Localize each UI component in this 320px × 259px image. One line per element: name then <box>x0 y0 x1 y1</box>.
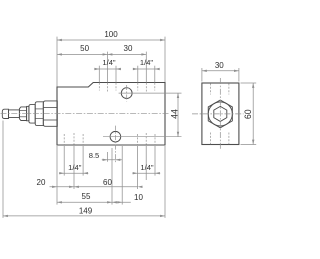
cap nut against body <box>43 101 57 126</box>
lower circle vertical centre line <box>114 126 116 164</box>
extension for 8.5 left <box>107 152 109 162</box>
dimension quarter top-left line <box>94 68 121 70</box>
svg-text:1/4": 1/4" <box>140 58 154 67</box>
svg-text:55: 55 <box>82 192 91 201</box>
extension bottom port1 edges <box>64 146 83 176</box>
svg-text:60: 60 <box>103 178 112 187</box>
svg-text:10: 10 <box>134 193 143 202</box>
washer <box>27 106 29 120</box>
extension at x112 <box>111 148 113 205</box>
extension line body right top <box>164 37 166 82</box>
extension bottom port2 right edge <box>154 146 156 176</box>
side view hidden port lines top <box>210 83 229 94</box>
extension body right bottom <box>164 146 166 218</box>
svg-text:8.5: 8.5 <box>89 151 100 160</box>
bottom port 2 hidden lines <box>138 133 155 145</box>
extension screw tip <box>2 121 4 218</box>
upper circle vertical centre line <box>126 85 128 101</box>
dimension 20-60 line <box>50 186 143 188</box>
extension body left bottom <box>56 146 58 205</box>
adjustment screw shaft <box>9 110 20 118</box>
svg-text:30: 30 <box>124 44 133 53</box>
side view hidden port lines bottom <box>210 133 229 145</box>
dimension 44 line <box>177 93 179 137</box>
extension line body left top <box>56 37 58 87</box>
svg-text:44: 44 <box>169 109 179 119</box>
extension at x122 <box>121 146 123 205</box>
extension bottom port2 left edge <box>137 146 139 189</box>
side extension left <box>201 68 203 82</box>
valve body front view outline <box>57 83 165 146</box>
svg-text:20: 20 <box>37 178 46 187</box>
svg-text:1/4": 1/4" <box>102 58 116 67</box>
lock nut hex A <box>19 107 26 121</box>
side view horizontal centre line <box>192 113 244 115</box>
svg-text:1/4": 1/4" <box>68 163 82 172</box>
side view body outline <box>202 83 239 145</box>
svg-text:100: 100 <box>104 30 118 39</box>
side view vertical centre line <box>219 78 221 150</box>
top port 2 hidden lines <box>138 83 155 92</box>
hex plug inner socket hexagon <box>214 106 227 121</box>
side extension stub bottom right <box>241 144 257 146</box>
side extension right <box>238 68 240 82</box>
svg-text:60: 60 <box>243 109 253 119</box>
hex section D <box>35 102 43 126</box>
extension top port2 centre <box>145 52 147 83</box>
upper circle horizontal centre line <box>119 92 182 94</box>
lower port circle <box>110 131 121 142</box>
dimension 100 line <box>57 39 165 41</box>
dimension 50-30 line <box>57 53 146 55</box>
svg-text:1/4": 1/4" <box>140 163 154 172</box>
dimension 60 side line <box>252 83 254 145</box>
svg-text:149: 149 <box>79 207 93 216</box>
dimension quarter top-right line <box>133 68 160 70</box>
extension bottom port1 centre <box>73 146 75 189</box>
dimension 8.5 line <box>102 159 122 161</box>
dimension 30 side line <box>202 70 239 72</box>
hex plug chamfer circle <box>208 102 232 126</box>
dimension 55-10 line <box>57 201 131 203</box>
extension bottom port2 centre <box>145 146 147 180</box>
upper port circle <box>121 88 132 99</box>
svg-text:50: 50 <box>80 44 89 53</box>
extension top port2 edges <box>138 66 155 83</box>
extension top port1 edges <box>99 66 116 83</box>
dimension 149 line <box>3 215 165 217</box>
extension top port1 centre <box>107 52 109 83</box>
screw axis centre line <box>1 112 170 114</box>
svg-text:30: 30 <box>215 61 224 70</box>
dimension quarter bottom-right line <box>132 172 160 174</box>
lower circle horizontal centre line <box>103 136 182 138</box>
top port 1 hidden lines <box>99 83 116 92</box>
sleeve collar <box>29 105 35 124</box>
dimension quarter bottom-left line <box>59 172 88 174</box>
hex plug outer hexagon <box>208 100 232 128</box>
adjustment screw dome tip <box>2 109 8 118</box>
side extension stub top right <box>241 82 257 84</box>
bottom port 1 hidden lines <box>64 133 83 145</box>
